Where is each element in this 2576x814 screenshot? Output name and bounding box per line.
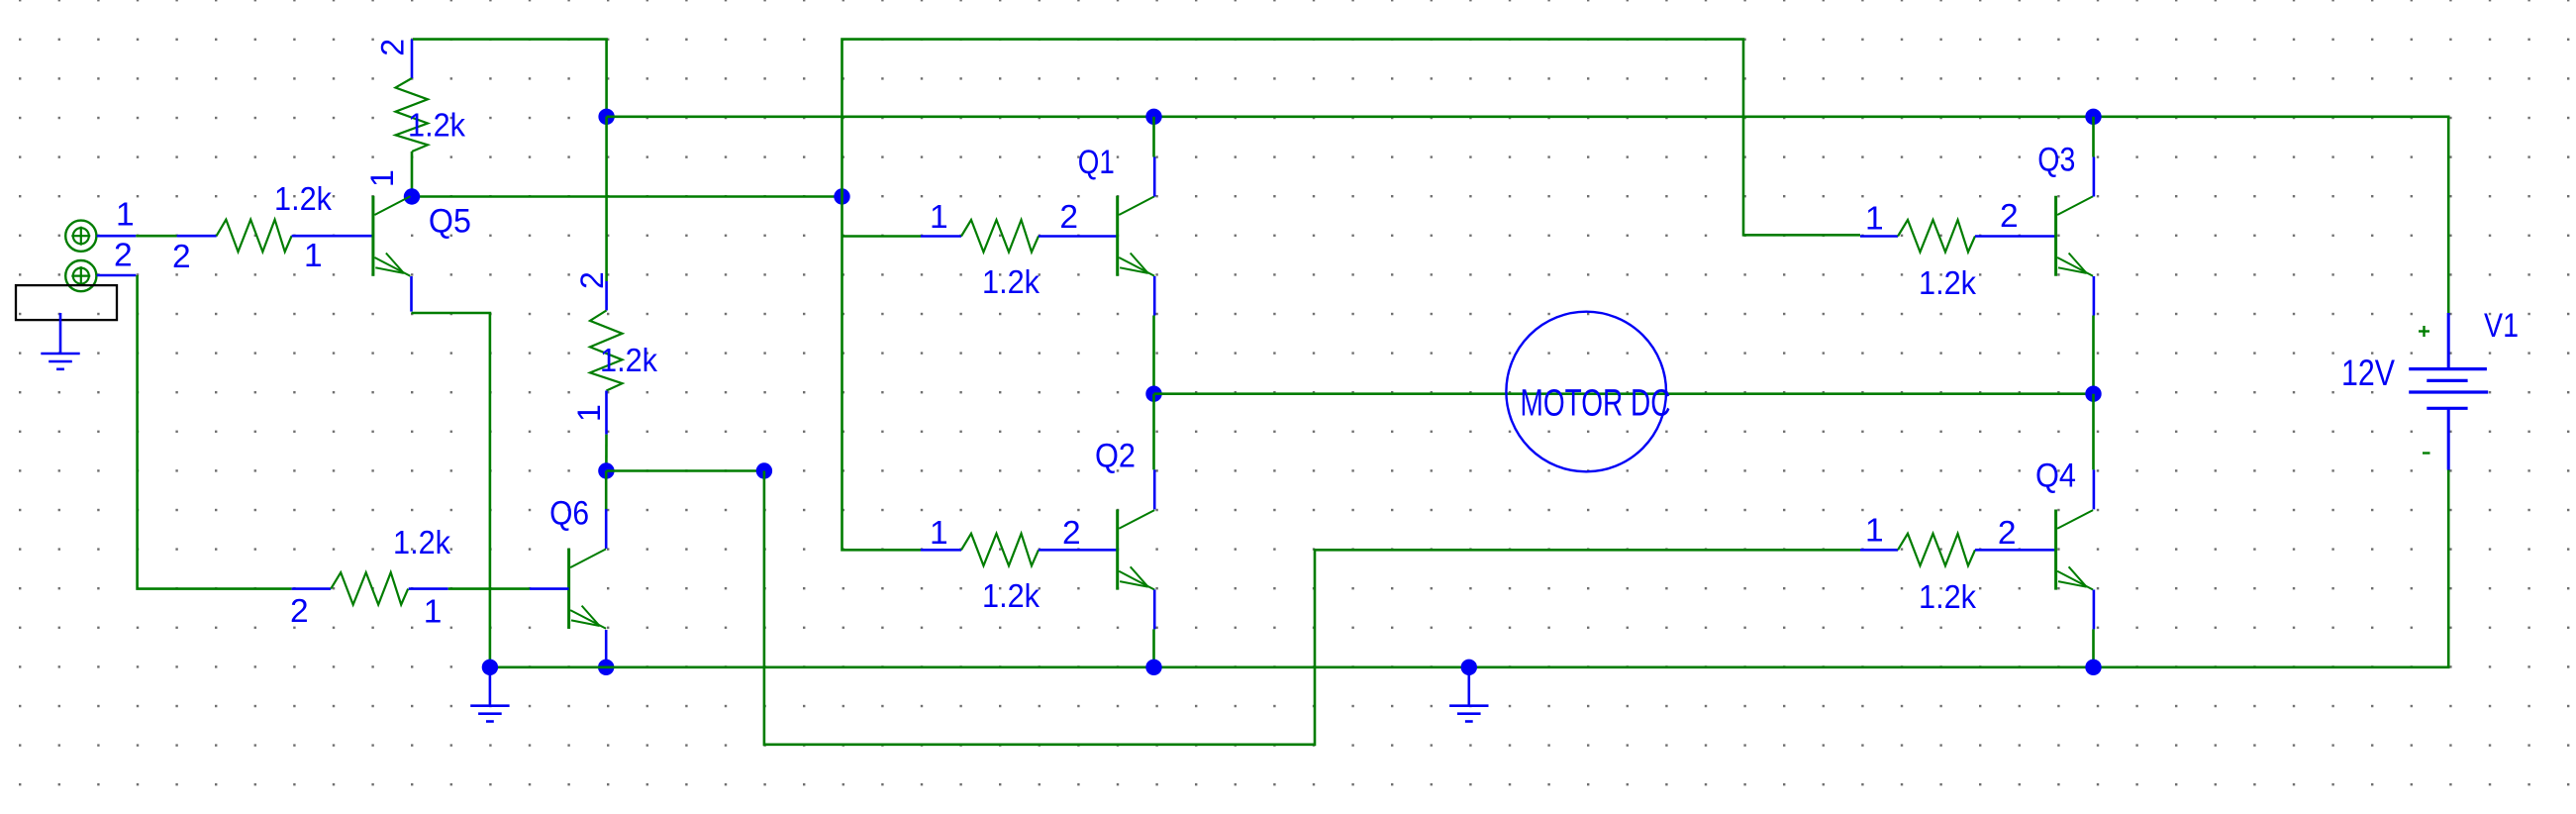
wire Q5 collector node to vertical bus xyxy=(412,195,842,198)
svg-text:Q4: Q4 xyxy=(2035,458,2076,495)
label MOTOR DC xyxy=(1521,383,1671,425)
ground (mid rail) xyxy=(1449,674,1488,722)
ground (input) xyxy=(41,313,79,369)
pin label 1 (R1) xyxy=(364,169,400,187)
junction node I (rail/Q1 collector) xyxy=(1145,109,1161,125)
pin label 1 (RQ3) xyxy=(1865,201,1884,238)
transistor Q5 xyxy=(373,196,411,276)
svg-text:1: 1 xyxy=(424,594,443,631)
svg-text:V1: V1 xyxy=(2484,307,2519,345)
motor M1 (MOTOR DC) xyxy=(1506,312,1666,472)
svg-text:MOTOR DC: MOTOR DC xyxy=(1521,383,1671,425)
transistor Q6 xyxy=(569,549,607,629)
junction node F (Q6 emitter) xyxy=(598,660,614,675)
label 12V xyxy=(2341,353,2395,393)
svg-text:1: 1 xyxy=(364,169,400,187)
terminal block body xyxy=(16,285,117,320)
transistor Q3 xyxy=(2056,196,2094,276)
wire node E down-right-up to R4 xyxy=(764,471,1860,745)
resistor R5 1.2k (input to Q5 base) xyxy=(177,220,373,253)
junction node M (motor right) xyxy=(2085,386,2101,402)
pin label 1 (RQ4) xyxy=(1865,513,1884,550)
value label 1.2k (R6) xyxy=(393,524,450,560)
resistor R?: 1.2k to Q4 base xyxy=(1860,534,2056,566)
pin label 2 (connector J2) xyxy=(114,238,133,274)
battery plus mark xyxy=(2419,326,2429,337)
value label 1.2k (RQ4) xyxy=(1919,578,1976,615)
junction node G (gnd left) xyxy=(482,660,498,675)
svg-text:1: 1 xyxy=(930,199,948,236)
wire Q4 collector from motor node xyxy=(2092,394,2095,510)
label Q3 xyxy=(2037,142,2075,179)
svg-text:1.2k: 1.2k xyxy=(1919,264,1976,301)
pin label 1 (R6) xyxy=(424,594,443,631)
wire motor rail xyxy=(1154,392,2094,395)
transistor Q4 xyxy=(2056,510,2094,590)
svg-text:2: 2 xyxy=(1059,199,1078,236)
junction node A (rail/R2) xyxy=(598,109,614,125)
svg-text:Q5: Q5 xyxy=(429,203,471,241)
pin label 1 (RQ1) xyxy=(930,199,948,236)
resistor R2 1.2k (Q6 collector load) xyxy=(590,281,623,471)
svg-text:1.2k: 1.2k xyxy=(393,524,450,560)
resistor R?: 1.2k to Q2 base xyxy=(921,534,1118,566)
value label 1.2k (R5) xyxy=(274,180,332,217)
svg-text:1: 1 xyxy=(116,197,135,234)
junction node K (Q2 emitter) xyxy=(1145,660,1161,675)
junction node L (rail/Q3 collector) xyxy=(2085,109,2101,125)
battery V1 12V xyxy=(2409,313,2488,470)
wire node D to Q6 collector xyxy=(605,471,608,550)
value label 1.2k (R1) xyxy=(408,107,465,144)
connector J2 (input 2) xyxy=(65,260,96,291)
wire node D to Q4 base xyxy=(606,469,764,472)
label Q6 xyxy=(549,495,589,533)
pin label 1 (R2) xyxy=(571,404,607,422)
svg-text:1: 1 xyxy=(930,515,948,552)
wire Q1 collector xyxy=(1152,117,1155,197)
pin label 1 (RQ2) xyxy=(930,515,948,552)
resistor R?: 1.2k to Q1 base xyxy=(921,220,1118,253)
transistor Q2 xyxy=(1118,510,1155,590)
svg-text:1.2k: 1.2k xyxy=(274,180,332,217)
battery minus mark xyxy=(2423,452,2430,454)
junction node B (Q5 collector) xyxy=(404,188,420,204)
wire Q1 emitter to motor node xyxy=(1152,276,1155,394)
junction node E (corner) xyxy=(756,462,772,478)
pin label 1 (connector J1) xyxy=(116,197,135,234)
wire bus to RQ1 xyxy=(842,235,922,238)
wire Q5 emitter to ground rail xyxy=(412,276,490,667)
value label 1.2k (RQ2) xyxy=(982,577,1040,614)
pin label 2 (RQ4) xyxy=(1998,515,2017,552)
pin label 1 (R5) xyxy=(304,238,323,274)
svg-text:1.2k: 1.2k xyxy=(600,342,657,378)
svg-text:Q3: Q3 xyxy=(2037,142,2075,179)
svg-text:2: 2 xyxy=(574,271,610,289)
svg-text:1.2k: 1.2k xyxy=(1919,578,1976,615)
wire Q2 emitter to ground rail xyxy=(1152,590,1155,667)
connector J1 (input 1) xyxy=(65,221,96,252)
wire Q3 emitter to motor node xyxy=(2092,276,2095,394)
value label 1.2k (RQ3) xyxy=(1919,264,1976,301)
wire Q3 collector xyxy=(2092,117,2095,197)
svg-text:2: 2 xyxy=(375,39,411,56)
pin label 2 (R6) xyxy=(290,593,309,630)
svg-text:2: 2 xyxy=(2000,198,2019,235)
pin label 2 (RQ3) xyxy=(2000,198,2019,235)
junction node C (bus x850) xyxy=(834,188,849,204)
pin label 2 (R2) xyxy=(574,271,610,289)
wire bus Q5 collector to Q2 base / Q3 base xyxy=(842,40,1861,551)
svg-text:Q1: Q1 xyxy=(1078,144,1115,181)
wire R1 top to node A xyxy=(413,40,607,117)
svg-text:2: 2 xyxy=(1062,515,1081,552)
value label 1.2k (RQ1) xyxy=(982,263,1040,300)
svg-text:1: 1 xyxy=(571,404,607,422)
svg-text:2: 2 xyxy=(114,238,133,274)
svg-text:1: 1 xyxy=(304,238,323,274)
label Q4 xyxy=(2035,458,2076,495)
wire rail to R2 xyxy=(605,117,608,281)
svg-text:1.2k: 1.2k xyxy=(982,263,1040,300)
svg-text:Q6: Q6 xyxy=(549,495,589,533)
wire Q2 collector from motor node xyxy=(1152,394,1155,510)
wire Q6 emitter to bottom rail xyxy=(605,630,608,667)
svg-text:2: 2 xyxy=(1998,515,2017,552)
transistor Q1 xyxy=(1118,196,1155,276)
label Q2 xyxy=(1095,438,1136,475)
value label 1.2k (R2) xyxy=(600,342,657,378)
label V1 xyxy=(2484,307,2519,345)
wire Q4 emitter to ground rail xyxy=(2092,590,2095,667)
junction node N (Q4 emitter) xyxy=(2085,660,2101,675)
svg-text:Q2: Q2 xyxy=(1095,438,1136,475)
wire J2 down-right to R6 xyxy=(97,275,292,589)
resistor R6 1.2k (input to Q6 base) xyxy=(292,572,569,605)
label Q5 xyxy=(429,203,471,241)
resistor R1 1.2k (Q5 collector load) xyxy=(396,40,429,197)
wire ground rail xyxy=(490,470,2448,667)
svg-text:2: 2 xyxy=(172,239,191,275)
junction node D (R2/Q6 collector) xyxy=(598,462,614,478)
pin label 2 (RQ1) xyxy=(1059,199,1078,236)
pin label 2 (R1) xyxy=(375,39,411,56)
ground (left rail) xyxy=(470,674,509,722)
label Q1 xyxy=(1078,144,1115,181)
pin label 2 (R5) xyxy=(172,239,191,275)
junction node H (gnd mid) xyxy=(1461,660,1477,675)
svg-text:1.2k: 1.2k xyxy=(982,577,1040,614)
svg-text:12V: 12V xyxy=(2341,353,2395,393)
svg-text:1: 1 xyxy=(1865,201,1884,238)
pin label 2 (RQ2) xyxy=(1062,515,1081,552)
svg-text:1: 1 xyxy=(1865,513,1884,550)
wire J1 to R5 xyxy=(97,235,177,238)
svg-text:2: 2 xyxy=(290,593,309,630)
resistor R?: 1.2k to Q3 base xyxy=(1860,220,2056,253)
wire +12V rail xyxy=(607,117,2449,313)
junction node J (motor left) xyxy=(1145,386,1161,402)
svg-text:1.2k: 1.2k xyxy=(408,107,465,144)
